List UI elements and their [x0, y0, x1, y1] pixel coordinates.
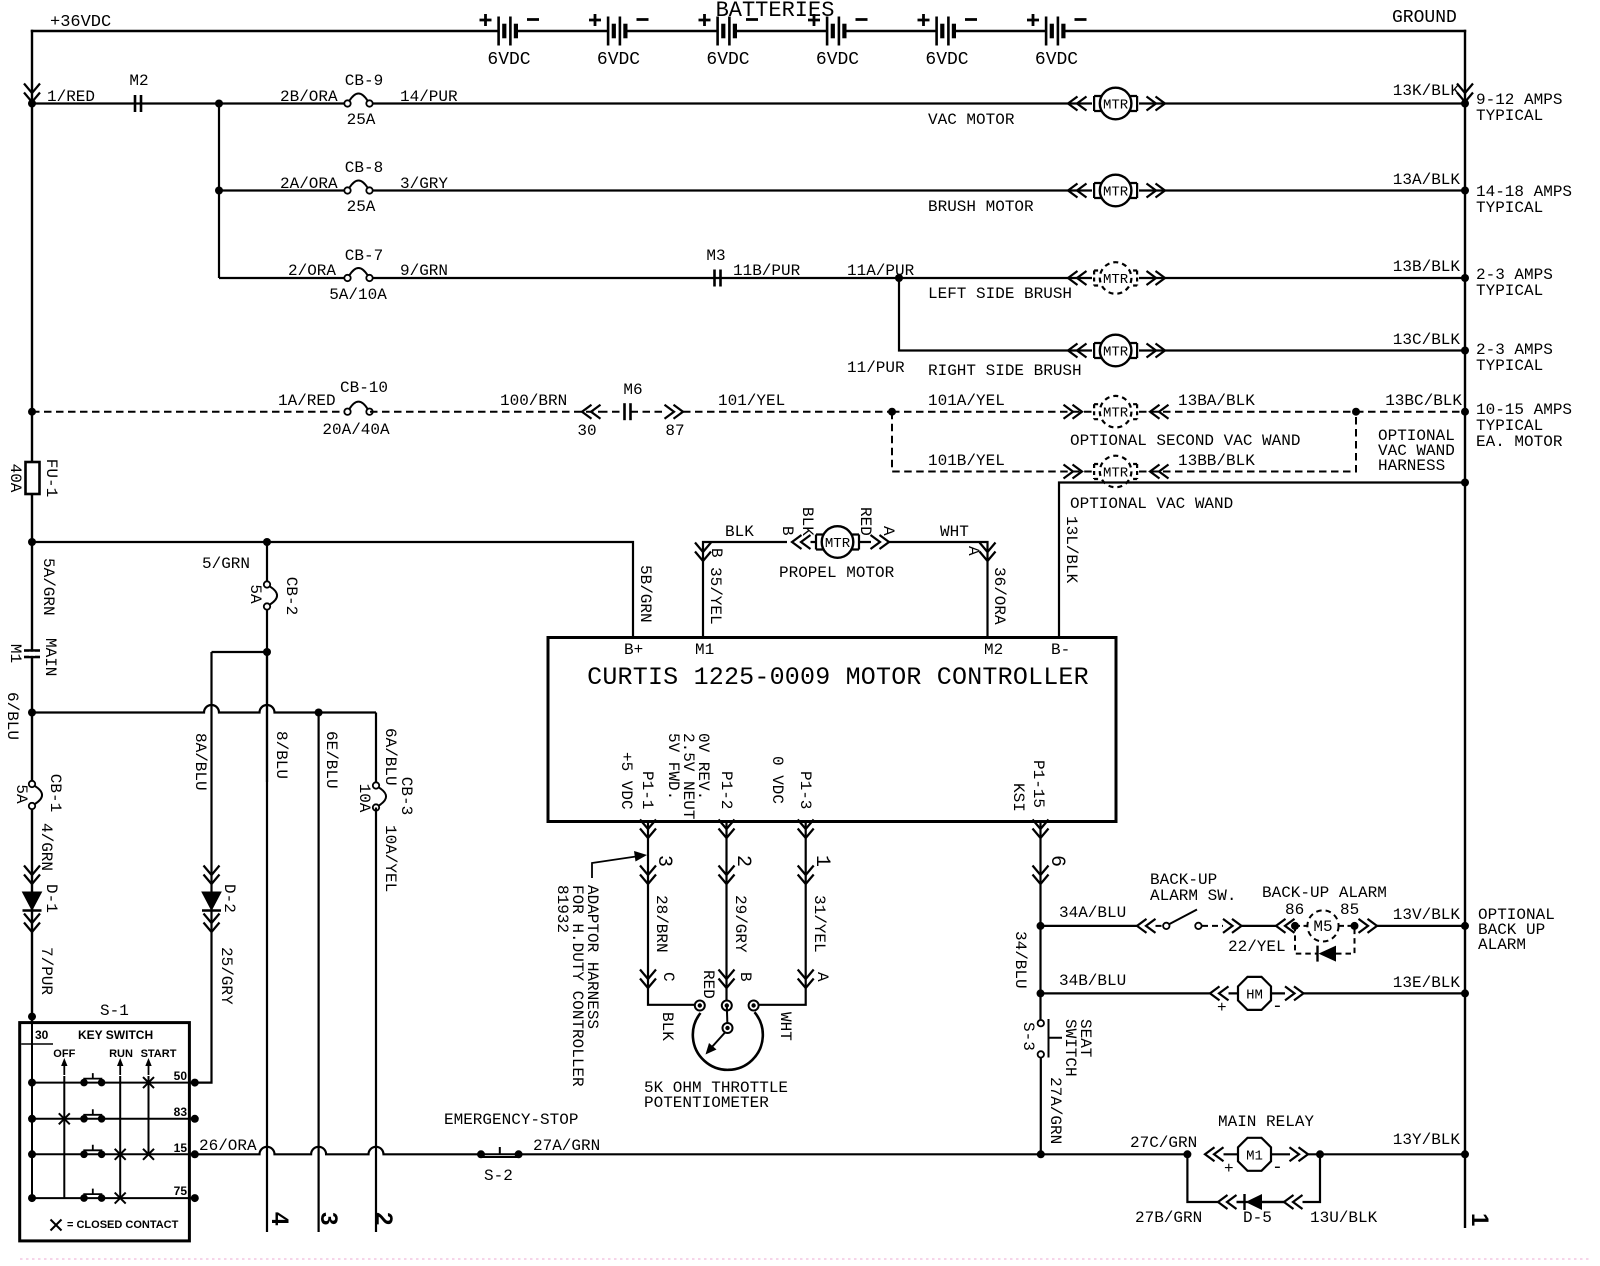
svg-text:M1: M1: [695, 641, 714, 659]
connector chevrons on 13U/BLK: [1284, 1195, 1303, 1209]
svg-text:6A/BLU: 6A/BLU: [381, 728, 399, 786]
node: row1 branch to row2/3: [215, 100, 223, 108]
wire: P1-2 drop 29/GRY: [725, 822, 727, 1005]
wire: row3: [219, 277, 1465, 279]
svg-text:29/GRY: 29/GRY: [731, 895, 749, 953]
svg-text:B-: B-: [1051, 641, 1070, 659]
node: row3 / right rail: [1461, 274, 1469, 282]
svg-text:5A/GRN: 5A/GRN: [39, 558, 57, 616]
wire (dashed): 13BC/BLK to right rail: [1356, 411, 1465, 413]
svg-text:POTENTIOMETER: POTENTIOMETER: [644, 1094, 769, 1112]
wire: RUN column: [119, 1076, 121, 1198]
svg-text:BRUSH MOTOR: BRUSH MOTOR: [928, 198, 1034, 216]
battery B3 6VDC: [718, 17, 735, 46]
wire: contact row 15: [32, 1153, 195, 1155]
connector chevrons out of propel motor: [871, 535, 890, 549]
wire: 13Y/BLK to right rail: [1308, 1153, 1465, 1155]
svg-text:A: A: [964, 546, 982, 556]
svg-text:BACK-UP ALARM: BACK-UP ALARM: [1262, 884, 1387, 902]
node: terminal 83: [191, 1115, 199, 1123]
svg-text:CB-10: CB-10: [340, 379, 388, 397]
svg-text:5V FWD.: 5V FWD.: [664, 733, 682, 800]
svg-text:CB-1: CB-1: [46, 774, 64, 812]
node: left rail / 6-BLU bus junction: [28, 709, 36, 717]
svg-text:D-5: D-5: [1243, 1209, 1272, 1227]
node: 8A/BLU branch junction: [263, 648, 271, 656]
svg-text:10A/YEL: 10A/YEL: [381, 825, 399, 892]
wire: 27A/GRN seat switch drop: [1040, 1058, 1042, 1155]
connector chevrons pot B: [719, 970, 735, 989]
battery B2 6VDC: [608, 17, 625, 46]
svg-text:2A/ORA: 2A/ORA: [280, 175, 338, 193]
svg-text:7/PUR: 7/PUR: [37, 947, 55, 995]
battery B5 6VDC: [937, 17, 954, 46]
node: terminal 75: [191, 1194, 199, 1202]
svg-text:13L/BLK: 13L/BLK: [1062, 516, 1080, 584]
svg-text:8A/BLU: 8A/BLU: [191, 733, 209, 791]
svg-text:75: 75: [174, 1184, 188, 1198]
connector chevrons below D-1: [24, 914, 40, 933]
svg-text:TYPICAL: TYPICAL: [1476, 199, 1543, 217]
pot terminal B: [722, 1001, 732, 1011]
svg-text:CURTIS 1225-0009 MOTOR CONTROL: CURTIS 1225-0009 MOTOR CONTROLLER: [587, 663, 1089, 692]
svg-text:85: 85: [1340, 901, 1359, 919]
node: dashed row / right rail: [1461, 408, 1469, 416]
node: 13V/BLK at right rail: [1461, 922, 1469, 930]
wire (dashed): to switch contact: [1156, 925, 1164, 927]
motor LEFT SIDE BRUSH MTR (dashed): [1092, 270, 1139, 287]
closed contact X OFF row 83: [59, 1113, 70, 1124]
svg-text:86: 86: [1285, 901, 1304, 919]
node: bus row83: [28, 1115, 36, 1123]
svg-text:WHT: WHT: [940, 523, 969, 541]
continuation arrow on left rail: [24, 84, 40, 103]
svg-text:13BA/BLK: 13BA/BLK: [1178, 392, 1255, 410]
connector chevrons after M1 coil: [1290, 1147, 1309, 1161]
connector chevrons out of optional vac wand motor: [1150, 465, 1169, 479]
svg-text:A: A: [813, 972, 831, 982]
svg-text:MAIN: MAIN: [41, 638, 59, 676]
svg-text:CB-9: CB-9: [345, 72, 383, 90]
svg-text:6VDC: 6VDC: [487, 50, 530, 70]
svg-text:25A: 25A: [347, 111, 376, 129]
connector chevrons below P1-2: [719, 820, 735, 839]
switch S-2 emergency stop: [477, 1150, 485, 1158]
connector chevrons pin 3: [640, 866, 656, 885]
wire: P1-3 drop 31/YEL: [754, 822, 806, 1005]
wire: key switch left bus (terminal 30 feed): [31, 1023, 33, 1199]
wire (dashed): 101/YEL to wand branch: [683, 411, 892, 413]
pot terminal BLK: [695, 1001, 705, 1011]
svg-text:ALARM SW.: ALARM SW.: [1150, 887, 1236, 905]
svg-text:-: -: [1272, 1158, 1283, 1178]
svg-text:D-1: D-1: [42, 884, 60, 913]
connector chevrons down on M1 riser: [695, 543, 711, 562]
svg-text:TYPICAL: TYPICAL: [1476, 357, 1543, 375]
svg-text:TYPICAL: TYPICAL: [1476, 282, 1543, 300]
node: wand branch junction: [888, 408, 896, 416]
svg-text:2: 2: [370, 1212, 397, 1225]
arrow START column: [145, 1058, 151, 1075]
svg-text:8/BLU: 8/BLU: [272, 731, 290, 779]
wire (dashed): 1A/RED from left rail to CB-10: [32, 411, 348, 413]
connector chevrons before alarm switch: [1137, 919, 1156, 933]
contactor contact M1 MAIN on left rail: [24, 651, 40, 658]
arrow OFF column: [61, 1058, 67, 1075]
wire: 6E/BLU down to connector 3: [318, 713, 320, 1233]
svg-text:22/YEL: 22/YEL: [1228, 938, 1286, 956]
svg-text:+: +: [1217, 999, 1227, 1017]
svg-text:31/YEL: 31/YEL: [810, 895, 828, 953]
node: row4 / right rail: [1461, 347, 1469, 355]
svg-text:C: C: [659, 972, 677, 982]
closed contact X RUN row 15: [115, 1149, 126, 1160]
svg-text:S-3: S-3: [1019, 1022, 1037, 1051]
svg-text:5A: 5A: [246, 584, 264, 604]
node: 6E/BLU branch: [315, 709, 323, 717]
svg-text:3/GRY: 3/GRY: [400, 175, 448, 193]
svg-text:34A/BLU: 34A/BLU: [1059, 904, 1126, 922]
motor RIGHT SIDE BRUSH MTR: [1092, 342, 1139, 359]
connector chevrons right of right-side-brush motor: [1147, 344, 1166, 358]
svg-text:27A/GRN: 27A/GRN: [533, 1137, 600, 1155]
node: row2 branch: [215, 187, 223, 195]
wire (dashed): into M6: [600, 411, 664, 413]
svg-text:6VDC: 6VDC: [706, 50, 749, 70]
svg-text:S-1: S-1: [100, 1002, 129, 1020]
svg-text:TYPICAL: TYPICAL: [1476, 107, 1543, 125]
svg-text:START: START: [141, 1048, 177, 1060]
svg-text:101/YEL: 101/YEL: [718, 392, 785, 410]
connector chevrons right of vac motor: [1147, 97, 1166, 111]
svg-text:0 VDC: 0 VDC: [768, 756, 786, 804]
svg-text:11A/PUR: 11A/PUR: [847, 262, 915, 280]
svg-text:27B/GRN: 27B/GRN: [1135, 1209, 1202, 1227]
svg-text:M5: M5: [1313, 918, 1332, 936]
svg-text:6E/BLU: 6E/BLU: [322, 731, 340, 789]
svg-text:WHT: WHT: [776, 1012, 794, 1041]
controller box U1: [548, 638, 1116, 822]
wire: row2: [219, 189, 1465, 191]
wire: 8A/BLU below bus: [195, 652, 212, 1083]
svg-text:RIGHT SIDE BRUSH: RIGHT SIDE BRUSH: [928, 362, 1082, 380]
svg-text:P1-2: P1-2: [717, 771, 735, 809]
pot wiper terminal: [726, 1006, 729, 1029]
svg-text:M6: M6: [623, 381, 642, 399]
svg-text:30: 30: [577, 422, 596, 440]
circuit breaker CB-10 20A/40A: [348, 410, 371, 413]
wire (dashed): 13BA/BLK: [1139, 411, 1356, 413]
svg-text:GROUND: GROUND: [1392, 8, 1457, 28]
svg-text:= CLOSED CONTACT: = CLOSED CONTACT: [67, 1219, 179, 1231]
wire: 8/BLU down to connector 4: [266, 652, 268, 1232]
svg-text:34/BLU: 34/BLU: [1011, 931, 1029, 989]
connector chevrons after hour meter: [1285, 986, 1304, 1000]
svg-text:P1-3: P1-3: [796, 771, 814, 809]
wire: 6A/BLU down to CB-3: [375, 713, 377, 784]
svg-text:6VDC: 6VDC: [816, 50, 859, 70]
connector chevrons pin 6: [1033, 866, 1049, 885]
svg-text:CB-7: CB-7: [345, 247, 383, 265]
svg-text:10A: 10A: [355, 784, 373, 813]
svg-text:M1: M1: [6, 644, 24, 663]
svg-text:13A/BLK: 13A/BLK: [1393, 171, 1461, 189]
potentiometer R1 body arc: [693, 1012, 763, 1070]
seat switch S-3 actuator: [1049, 1019, 1063, 1058]
node: seat switch joins 26/ORA line: [1037, 1150, 1045, 1158]
node: row1 / right rail: [1461, 100, 1469, 108]
svg-text:HARNESS: HARNESS: [1378, 457, 1445, 475]
svg-text:30: 30: [35, 1028, 49, 1042]
diode D-1: [23, 892, 42, 911]
svg-text:BLK: BLK: [658, 1012, 676, 1041]
connector chevrons down on M2 riser: [980, 543, 996, 562]
node: bus row15: [28, 1150, 36, 1158]
svg-text:6VDC: 6VDC: [1035, 50, 1078, 70]
connector chevrons left of left-side-brush motor: [1068, 271, 1087, 285]
node: M5 terminal 85: [1351, 922, 1359, 930]
wire: 34A/BLU to alarm switch: [1041, 925, 1138, 927]
closed contact X START row 50: [143, 1077, 154, 1088]
wire: left rail: [31, 30, 33, 1022]
svg-text:11B/PUR: 11B/PUR: [733, 262, 801, 280]
key switch box: [20, 1023, 190, 1241]
circuit breaker CB-7 5A/10A: [344, 268, 372, 281]
connector chevrons into optional vac wand motor: [1064, 465, 1083, 479]
wire: chevrons to motor: [811, 541, 872, 543]
svg-text:EMERGENCY-STOP: EMERGENCY-STOP: [444, 1111, 578, 1129]
svg-text:25/GRY: 25/GRY: [217, 947, 235, 1005]
node: 34A/BLU branch: [1037, 922, 1045, 930]
pot wiper arrow: [711, 1033, 725, 1049]
svg-text:A: A: [879, 526, 897, 536]
node: 13L/BLK at right rail: [1461, 479, 1469, 487]
svg-text:PROPEL MOTOR: PROPEL MOTOR: [779, 564, 895, 582]
svg-text:D-2: D-2: [220, 884, 238, 913]
svg-text:1A/RED: 1A/RED: [278, 392, 336, 410]
connector chevrons after alarm switch: [1223, 919, 1242, 933]
svg-text:OFF: OFF: [53, 1048, 75, 1060]
pushbutton contact row 83: [80, 1109, 105, 1122]
node: M5 terminal 86: [1291, 922, 1299, 930]
svg-text:26/ORA: 26/ORA: [199, 1137, 257, 1155]
connector chevrons pot A: [798, 970, 814, 989]
svg-text:BLK: BLK: [798, 507, 816, 536]
battery B4 6VDC: [827, 17, 844, 46]
svg-text:B+: B+: [624, 641, 643, 659]
svg-text:13BC/BLK: 13BC/BLK: [1385, 392, 1462, 410]
svg-text:LEFT SIDE BRUSH: LEFT SIDE BRUSH: [928, 285, 1072, 303]
svg-text:13U/BLK: 13U/BLK: [1310, 1209, 1378, 1227]
svg-text:KEY SWITCH: KEY SWITCH: [78, 1028, 153, 1042]
connector chevrons pin 2: [719, 866, 735, 885]
svg-text:+5 VDC: +5 VDC: [617, 752, 635, 810]
svg-text:2/ORA: 2/ORA: [288, 262, 336, 280]
svg-text:CB-2: CB-2: [282, 577, 300, 615]
wire: 1/RED row1 left: [32, 102, 1465, 104]
wire: OFF column: [63, 1076, 65, 1198]
connector chevrons before hour meter: [1210, 986, 1229, 1000]
node: left rail / dashed wand branch: [28, 408, 36, 416]
svg-text:6: 6: [1045, 855, 1068, 867]
circuit breaker CB-3 10A: [373, 782, 386, 810]
svg-text:KSI: KSI: [1009, 783, 1027, 812]
svg-text:CB-8: CB-8: [345, 159, 383, 177]
svg-text:100/BRN: 100/BRN: [500, 392, 567, 410]
svg-text:4/GRN: 4/GRN: [37, 823, 55, 871]
svg-text:15: 15: [174, 1141, 188, 1155]
svg-text:5A: 5A: [12, 784, 30, 804]
svg-text:BLK: BLK: [725, 523, 754, 541]
closed contact X START row 15: [143, 1149, 154, 1160]
connector chevrons on 27B/GRN: [1218, 1195, 1237, 1209]
svg-text:3: 3: [315, 1212, 342, 1225]
node: CB-2 branch junction: [263, 538, 271, 546]
node: key switch terminal 30 feed: [28, 1013, 36, 1021]
switch S-4 back-up alarm sw (open): [1163, 923, 1169, 929]
svg-text:1: 1: [1466, 1213, 1493, 1226]
connector chevrons after M5: [1359, 919, 1378, 933]
svg-text:B: B: [778, 526, 796, 536]
svg-text:5/GRN: 5/GRN: [202, 555, 250, 573]
svg-text:HM: HM: [1246, 988, 1263, 1004]
circuit breaker CB-2 5A: [263, 583, 271, 609]
adaptor harness callout leader: [592, 857, 636, 879]
wire: right ground rail: [1464, 30, 1466, 1228]
svg-text:81932: 81932: [553, 885, 571, 933]
svg-text:13Y/BLK: 13Y/BLK: [1393, 1131, 1461, 1149]
wire: KSI drop from P1-15: [1039, 822, 1041, 1024]
diode D-2: [202, 892, 221, 911]
wire: M1 riser 35/YEL: [703, 542, 787, 638]
hour meter HM octagon: [1229, 992, 1286, 994]
svg-text:13B/BLK: 13B/BLK: [1393, 258, 1461, 276]
contactor contact M2: [135, 95, 141, 112]
svg-text:-: -: [1272, 997, 1283, 1017]
wire: 34B/BLU to hour meter: [1041, 992, 1211, 994]
connector chevrons into propel motor: [792, 535, 811, 549]
svg-text:B: B: [707, 548, 725, 558]
node: relay branch left: [1183, 1150, 1191, 1158]
motor VAC MTR: [1092, 95, 1139, 112]
wire: WHT to M2 riser: [889, 542, 988, 638]
connector chevrons below P1-3: [798, 820, 814, 839]
svg-text:20A/40A: 20A/40A: [322, 421, 390, 439]
connector chevrons pin 1: [798, 866, 814, 885]
svg-text:50: 50: [174, 1069, 188, 1083]
svg-text:13BB/BLK: 13BB/BLK: [1178, 452, 1255, 470]
seat switch S-3 contact bottom: [1038, 1051, 1044, 1057]
wire: 8A/BLU branch left and down: [212, 651, 268, 653]
connector chevrons left of brush motor: [1068, 184, 1087, 198]
circuit breaker CB-1 5A on left rail: [28, 782, 36, 808]
svg-text:34B/BLU: 34B/BLU: [1059, 972, 1126, 990]
svg-text:ALARM: ALARM: [1478, 936, 1526, 954]
node: wand harness right junction: [1352, 408, 1360, 416]
svg-text:M2: M2: [984, 641, 1003, 659]
closed contact X RUN row 75: [115, 1193, 126, 1204]
node: 13Y/BLK at right rail: [1461, 1150, 1469, 1158]
svg-text:27A/GRN: 27A/GRN: [1046, 1077, 1064, 1144]
svg-text:M1: M1: [1246, 1149, 1263, 1165]
svg-text:13V/BLK: 13V/BLK: [1393, 906, 1461, 924]
connector chevrons before M1 coil: [1205, 1147, 1224, 1161]
pushbutton contact row 75: [80, 1189, 105, 1202]
connector chevrons right of left-side-brush motor: [1147, 271, 1166, 285]
wire (dashed): 101A/YEL to second-wand motor: [892, 411, 1092, 413]
alarm coil M5 (dashed circle): [1295, 925, 1354, 927]
wire: CB-2 branch down: [266, 542, 268, 782]
decorative dotted margin line: [20, 1258, 1590, 1260]
svg-text:FU-1: FU-1: [42, 459, 60, 497]
svg-text:OPTIONAL VAC WAND: OPTIONAL VAC WAND: [1070, 495, 1233, 513]
svg-text:11/PUR: 11/PUR: [847, 359, 905, 377]
wire: contact row 75: [32, 1197, 195, 1199]
wire: B- riser 13L/BLK: [1059, 483, 1465, 638]
wire: START column: [148, 1076, 150, 1154]
connector chevrons into second vac wand motor: [1064, 405, 1083, 419]
wire: 27A/GRN to relay branch: [519, 1153, 1188, 1155]
wire: contact row 83: [32, 1118, 195, 1120]
node: terminal 15: [191, 1150, 199, 1158]
arrow RUN column: [117, 1058, 123, 1075]
wire (dashed): 100/BRN: [370, 411, 600, 413]
wire: D-5 flyback branch: [1187, 1154, 1320, 1202]
svg-text:RUN: RUN: [109, 1048, 133, 1060]
seat switch S-3 contact top: [1038, 1020, 1044, 1026]
svg-text:+: +: [1224, 1160, 1234, 1178]
wire: 10A/YEL down to connector 2: [375, 808, 377, 1233]
circuit breaker CB-9 25A: [344, 93, 372, 106]
wire: 5/GRN feed from left rail to B+ riser: [32, 542, 633, 638]
svg-text:36/ORA: 36/ORA: [990, 567, 1008, 625]
node: bus row75: [28, 1194, 36, 1202]
contactor contact M6: [625, 403, 631, 420]
svg-text:87: 87: [665, 422, 684, 440]
node: left rail / B+ feed junction: [28, 538, 36, 546]
svg-text:13C/BLK: 13C/BLK: [1393, 331, 1461, 349]
svg-text:RED: RED: [856, 507, 874, 536]
svg-text:13K/BLK: 13K/BLK: [1393, 82, 1461, 100]
svg-text:6VDC: 6VDC: [597, 50, 640, 70]
connector chevrons below D-2: [204, 914, 220, 933]
node: bus row50: [28, 1079, 36, 1087]
svg-text:14/PUR: 14/PUR: [400, 88, 458, 106]
svg-text:B: B: [736, 972, 754, 982]
wire: contact row 50: [32, 1082, 195, 1084]
svg-text:13E/BLK: 13E/BLK: [1393, 974, 1461, 992]
svg-text:35/YEL: 35/YEL: [706, 567, 724, 625]
motor BRUSH MTR: [1092, 182, 1139, 199]
connector chevrons M6 pin 30: [582, 405, 601, 419]
connector chevrons left of vac motor: [1068, 97, 1087, 111]
connector chevrons on 4/GRN wire: [24, 866, 40, 885]
svg-text:EA. MOTOR: EA. MOTOR: [1476, 433, 1563, 451]
svg-text:4: 4: [266, 1212, 293, 1226]
svg-text:1: 1: [810, 855, 833, 867]
connector chevrons below P1-15: [1033, 820, 1049, 839]
diode D-5: [1243, 1194, 1245, 1210]
motor OPTIONAL VAC WAND MTR (dashed): [1094, 456, 1137, 488]
wire (dashed): left drop to optional vac wand row: [892, 412, 1092, 472]
svg-text:+36VDC: +36VDC: [50, 13, 111, 32]
svg-text:5A/10A: 5A/10A: [329, 286, 387, 304]
svg-text:CB-3: CB-3: [397, 777, 415, 815]
wire: row3 to row4 drop: [899, 278, 1465, 351]
fuse FU-1 40A: [26, 462, 40, 494]
svg-text:P1-1: P1-1: [638, 771, 656, 809]
wire: 13E/BLK to right rail: [1304, 992, 1466, 994]
